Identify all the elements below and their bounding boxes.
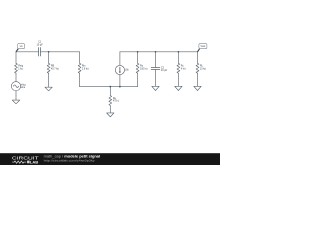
wire vin to Rsig bbox=[15, 52, 17, 64]
capacitor C2 bbox=[151, 66, 167, 72]
current source I1 (beta*ib) bbox=[115, 65, 129, 74]
resistor Ro bbox=[136, 63, 148, 73]
wire RL to ground bbox=[197, 73, 199, 86]
wire Rc to ground bbox=[177, 73, 179, 86]
wire Ro drop bbox=[137, 52, 139, 64]
svg-text:LAB: LAB bbox=[30, 160, 38, 165]
CircuitLab logo bbox=[12, 155, 39, 164]
resistor Rc bbox=[177, 63, 186, 73]
resistor Re bbox=[109, 96, 120, 106]
ground below RB bbox=[45, 87, 52, 91]
svg-text:1 kΩ: 1 kΩ bbox=[18, 67, 23, 70]
resistor RL bbox=[196, 63, 206, 73]
junction at Ro / top rail bbox=[137, 51, 139, 53]
junction at RB / top rail bbox=[48, 51, 50, 53]
wire RE drop bbox=[109, 87, 111, 96]
ground below RE bbox=[107, 113, 114, 117]
node vin flag bbox=[16, 43, 25, 51]
svg-text:10 µF: 10 µF bbox=[161, 69, 168, 72]
junction at RE / bottom rail bbox=[109, 86, 111, 88]
resistor Rsig bbox=[15, 63, 24, 73]
wire top rail right bbox=[120, 51, 198, 53]
svg-text:10 µF: 10 µF bbox=[37, 43, 44, 46]
wire Rc drop bbox=[177, 52, 179, 64]
svg-text:Vout: Vout bbox=[201, 45, 206, 48]
wire top rail left (C1 to Rin corner) bbox=[41, 51, 80, 53]
svg-text:475 Ω: 475 Ω bbox=[113, 100, 120, 103]
svg-text:sine: sine bbox=[21, 86, 26, 89]
wire C2 top bbox=[155, 52, 157, 68]
svg-text:http://circuitlab.com/c4rw3p3k: http://circuitlab.com/c4rw3p3ky bbox=[44, 158, 96, 162]
resistor RB bbox=[47, 63, 59, 73]
ground below RL bbox=[194, 86, 201, 90]
ground below Vsig bbox=[12, 100, 19, 104]
voltage source Vsig bbox=[11, 82, 26, 91]
junction at C2 / top rail bbox=[155, 51, 157, 53]
ground below C2 bbox=[152, 86, 159, 90]
wire RB drop bbox=[48, 52, 50, 64]
wire C2 to ground bbox=[155, 70, 157, 87]
svg-text:2.9 kΩ: 2.9 kΩ bbox=[82, 67, 89, 70]
footer watermark bar bbox=[0, 153, 220, 165]
wire current source bottom bbox=[119, 75, 121, 87]
resistor Rin bbox=[78, 63, 89, 73]
wire RE to ground bbox=[109, 106, 111, 113]
svg-text:4 kΩ: 4 kΩ bbox=[181, 67, 186, 70]
wire RB to ground bbox=[48, 73, 50, 87]
capacitor C1 bbox=[37, 41, 44, 56]
svg-text:45.7 kΩ: 45.7 kΩ bbox=[51, 67, 60, 70]
wire Vsig to ground bbox=[15, 91, 17, 100]
junction at Rc / top rail bbox=[178, 51, 180, 53]
wire rail corner down to Rin bbox=[79, 52, 81, 64]
wire RL drop bbox=[197, 52, 199, 64]
ground below Rc bbox=[175, 86, 182, 90]
wire current source top bbox=[119, 52, 121, 66]
wire Rsig to Vsig bbox=[15, 73, 17, 81]
node Vout flag bbox=[198, 43, 207, 51]
svg-text:100 kΩ: 100 kΩ bbox=[140, 67, 148, 70]
wire Rin to bottom rail bbox=[79, 73, 81, 86]
svg-text:10 kΩ: 10 kΩ bbox=[200, 67, 207, 70]
wire Ro to bottom rail bbox=[137, 73, 139, 86]
wire top rail left (vin to C1) bbox=[16, 51, 39, 53]
junction at current source / bottom rail bbox=[119, 86, 121, 88]
wire bottom rail bbox=[80, 86, 138, 88]
